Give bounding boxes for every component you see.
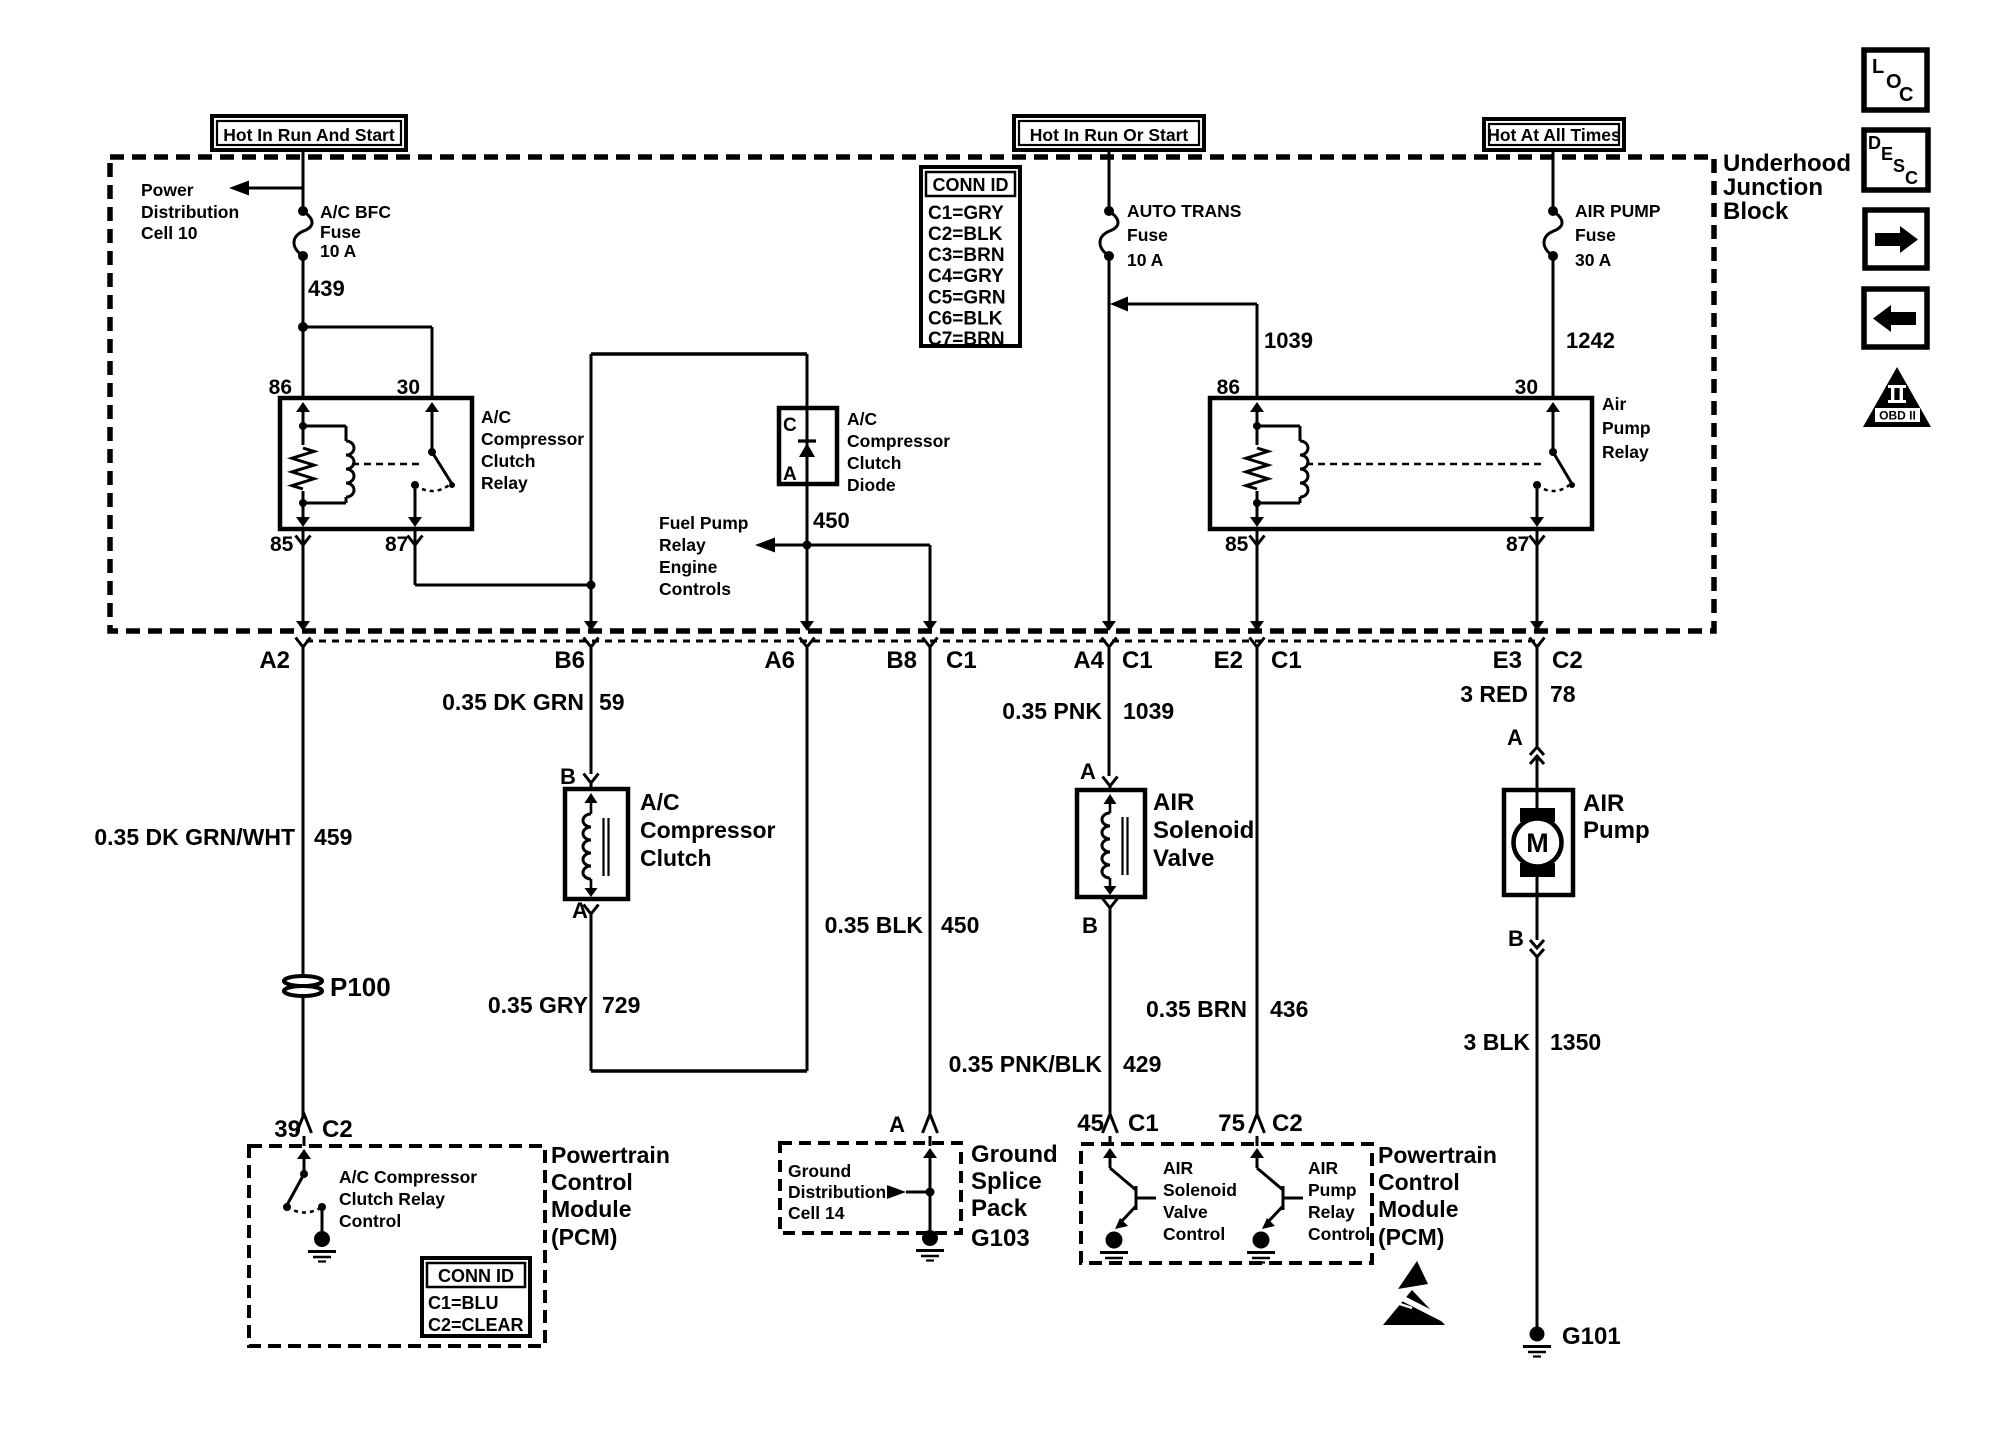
svg-text:78: 78: [1550, 681, 1576, 707]
double chevron connector (B): [1530, 895, 1544, 957]
pin label 30: [397, 376, 420, 399]
connector A4: [1102, 638, 1117, 648]
wire: solenoid pin B to PCM pin 45: [1103, 899, 1118, 1147]
connector A2: [296, 638, 311, 648]
svg-text:Air: Air: [1602, 394, 1627, 414]
svg-text:439: 439: [308, 276, 345, 301]
svg-text:Cell 14: Cell 14: [788, 1203, 845, 1223]
svg-text:C1: C1: [1271, 647, 1302, 674]
svg-text:A4: A4: [1073, 647, 1104, 674]
svg-text:1039: 1039: [1123, 698, 1174, 724]
connector label B6: [554, 647, 585, 674]
svg-text:E: E: [1881, 144, 1893, 164]
svg-text:B: B: [1508, 926, 1524, 951]
svg-text:Pump: Pump: [1308, 1180, 1357, 1200]
svg-text:Module: Module: [551, 1196, 632, 1222]
wire label 0.35 DK GRN 59: [442, 689, 624, 715]
label: AIR Solenoid Valve: [1153, 789, 1254, 872]
label: Air Pump Relay: [1602, 394, 1651, 462]
CONN ID table (underhood): [921, 167, 1020, 350]
svg-text:Powertrain: Powertrain: [1378, 1142, 1497, 1168]
icon button DESC: [1864, 130, 1928, 190]
svg-text:Block: Block: [1723, 198, 1789, 225]
pin label 45 C1: [1077, 1110, 1158, 1137]
svg-text:C: C: [783, 415, 797, 436]
svg-text:(PCM): (PCM): [1378, 1224, 1444, 1250]
svg-text:C: C: [1899, 84, 1913, 106]
wire label 439: [308, 276, 345, 301]
svg-text:85: 85: [1225, 533, 1249, 556]
wire label 1039 (branch): [1264, 328, 1313, 353]
wire: B6 to clutch pin B: [584, 647, 599, 789]
wire: Hot In Run Or Start feed down to fuse: [1108, 150, 1111, 211]
svg-text:Solenoid: Solenoid: [1153, 817, 1254, 844]
svg-text:Splice: Splice: [971, 1168, 1042, 1195]
wire: diode to junction 450: [803, 484, 812, 550]
wire: B6 vertical: [584, 354, 598, 631]
label: Ground Splice Pack G103: [971, 1141, 1058, 1252]
wire/arrow to Power Distribution: [229, 181, 303, 196]
label: Powertrain Control Module (PCM) (left): [551, 1142, 670, 1250]
svg-text:C1: C1: [1122, 647, 1153, 674]
svg-text:Compressor: Compressor: [481, 429, 584, 449]
wire label 0.35 GRY 729: [488, 992, 641, 1018]
svg-text:Junction: Junction: [1723, 174, 1823, 201]
label: A/C BFC Fuse 10 A: [320, 202, 391, 261]
wire: air relay pin 87 to connector E3: [1530, 529, 1545, 631]
svg-text:Powertrain: Powertrain: [551, 1142, 670, 1168]
svg-text:Controls: Controls: [659, 579, 731, 599]
wire label 0.35 PNK 1039: [1002, 698, 1174, 724]
icon button: left arrow: [1864, 289, 1927, 347]
ground G101: [1523, 1327, 1551, 1357]
svg-text:L: L: [1872, 56, 1884, 78]
svg-text:CONN ID: CONN ID: [933, 175, 1009, 195]
ground G103 symbol: [916, 1192, 944, 1261]
svg-text:87: 87: [1506, 533, 1529, 556]
pin label 87 (air pump relay): [1506, 533, 1529, 556]
svg-text:A: A: [889, 1112, 905, 1137]
label: AUTO TRANS Fuse 10 A: [1127, 201, 1241, 270]
svg-text:C2: C2: [322, 1116, 353, 1143]
CONN ID table (PCM): [422, 1258, 530, 1336]
wire: A4 to solenoid pin A: [1103, 647, 1118, 790]
diode symbol: [798, 408, 816, 484]
svg-text:Module: Module: [1378, 1196, 1459, 1222]
svg-text:B: B: [560, 764, 576, 789]
svg-text:G101: G101: [1562, 1323, 1621, 1350]
svg-text:OBD II: OBD II: [1879, 409, 1916, 423]
clutch coil symbol: [583, 793, 609, 897]
PCM dashed box (right): [1081, 1144, 1372, 1263]
svg-text:C1: C1: [946, 647, 977, 674]
label: A/C Compressor Clutch: [640, 789, 776, 871]
connector A6: [800, 638, 815, 648]
pin label A (clutch): [572, 898, 588, 923]
svg-text:Ground: Ground: [971, 1141, 1058, 1168]
air pump relay dashed link: [1306, 463, 1545, 466]
wire label 0.35 PNK/BLK 429: [949, 1051, 1162, 1077]
feed label box: Hot In Run Or Start: [1014, 116, 1204, 150]
label: AIR Pump: [1583, 790, 1650, 844]
svg-text:C7=BRN: C7=BRN: [928, 329, 1005, 350]
svg-text:P100: P100: [330, 972, 391, 1002]
svg-text:Relay: Relay: [1602, 442, 1649, 462]
svg-text:C2: C2: [1272, 1110, 1303, 1137]
label: Power Distribution Cell 10: [141, 180, 239, 243]
pin label 75 C2: [1218, 1110, 1302, 1137]
svg-text:Fuse: Fuse: [320, 222, 361, 242]
icon button LOC: [1864, 50, 1927, 110]
air pump relay switch: [1530, 402, 1575, 527]
relay box: Air Pump Relay: [1210, 398, 1592, 529]
svg-text:0.35 GRY: 0.35 GRY: [488, 992, 588, 1018]
svg-text:Clutch: Clutch: [847, 453, 901, 473]
component box: AIR Solenoid Valve: [1077, 790, 1145, 897]
air pump relay coil: [1246, 402, 1308, 527]
icon: OBD II triangle: [1863, 367, 1931, 427]
connector label A4 C1: [1073, 647, 1152, 674]
svg-text:Fuel Pump: Fuel Pump: [659, 513, 748, 533]
label: AIR PUMP Fuse 30 A: [1575, 201, 1661, 270]
svg-text:A/C: A/C: [847, 409, 878, 429]
wire label 0.35 DK GRN/WHT 459: [94, 824, 352, 850]
svg-text:Underhood: Underhood: [1723, 150, 1851, 177]
svg-text:0.35 PNK/BLK: 0.35 PNK/BLK: [949, 1051, 1103, 1077]
ESD sensitive device symbol: [1383, 1261, 1449, 1325]
component box: A/C Compressor Clutch: [565, 789, 628, 899]
wire/arrow to Fuel Pump Relay: [755, 538, 807, 553]
relay switch contact: [408, 402, 455, 527]
svg-text:39: 39: [274, 1116, 301, 1143]
svg-text:A/C Compressor: A/C Compressor: [339, 1167, 477, 1187]
connector label B8 C1: [886, 647, 976, 674]
svg-text:10 A: 10 A: [1127, 250, 1164, 270]
svg-text:Compressor: Compressor: [640, 817, 776, 843]
fuse: A/C BFC Fuse 10 A: [294, 206, 312, 261]
PCM driver transistor: AIR Solenoid Valve Control: [1100, 1148, 1156, 1263]
svg-text:Control: Control: [1163, 1224, 1225, 1244]
svg-text:0.35 BRN: 0.35 BRN: [1146, 996, 1247, 1022]
pin label 30 (air pump relay): [1515, 376, 1538, 399]
pin label B (solenoid): [1082, 913, 1098, 938]
wire label 3 RED 78: [1460, 681, 1576, 707]
ground splice junction and arrow: [887, 1148, 937, 1199]
svg-text:429: 429: [1123, 1051, 1161, 1077]
svg-text:Solenoid: Solenoid: [1163, 1180, 1237, 1200]
svg-text:B6: B6: [554, 647, 585, 674]
svg-text:459: 459: [314, 824, 352, 850]
wire: air pump to G101: [1536, 957, 1539, 1327]
svg-text:450: 450: [813, 508, 850, 533]
wire: A2 to P100: [302, 647, 305, 977]
svg-text:Cell 10: Cell 10: [141, 223, 198, 243]
pin label 85: [270, 533, 294, 556]
wire: E3 to air pump pin A: [1536, 647, 1539, 746]
pin label 39 C2: [274, 1116, 352, 1143]
svg-text:Pack: Pack: [971, 1195, 1028, 1222]
svg-text:436: 436: [1270, 996, 1308, 1022]
pin label 86: [269, 376, 292, 399]
svg-text:A6: A6: [764, 647, 795, 674]
svg-text:Engine: Engine: [659, 557, 718, 577]
label: Underhood Junction Block: [1723, 150, 1851, 225]
relay box: A/C Compressor Clutch Relay: [280, 398, 472, 529]
wire: relay pin 85 to connector A2: [296, 529, 311, 631]
label: Ground Distribution Cell 14: [788, 1161, 886, 1223]
svg-text:M: M: [1526, 828, 1549, 858]
svg-text:A: A: [783, 464, 797, 485]
svg-text:S: S: [1893, 156, 1905, 176]
svg-text:0.35 DK GRN/WHT: 0.35 DK GRN/WHT: [94, 824, 295, 850]
branch junction arrow to relay 86: [1110, 297, 1257, 399]
svg-text:0.35 DK GRN: 0.35 DK GRN: [442, 689, 584, 715]
wire label 450: [813, 508, 850, 533]
svg-text:C2: C2: [1552, 647, 1583, 674]
svg-text:G103: G103: [971, 1225, 1030, 1252]
svg-text:Clutch: Clutch: [481, 451, 535, 471]
pin label A (G103): [889, 1112, 905, 1137]
feed label box: Hot At All Times: [1484, 119, 1624, 150]
svg-text:Pump: Pump: [1583, 817, 1650, 844]
svg-text:Clutch Relay: Clutch Relay: [339, 1189, 445, 1209]
label: Powertrain Control Module (PCM) (right): [1378, 1142, 1497, 1250]
in-line connector P100: [284, 976, 322, 996]
label G101: [1562, 1323, 1621, 1350]
svg-text:Control: Control: [1308, 1224, 1370, 1244]
svg-text:D: D: [1868, 133, 1881, 153]
svg-text:Diode: Diode: [847, 475, 896, 495]
relay actuation dashed link: [352, 463, 424, 466]
svg-text:C1: C1: [1128, 1110, 1159, 1137]
pin label 86 (air pump relay): [1217, 376, 1240, 399]
wire label 0.35 BRN 436: [1146, 996, 1308, 1022]
svg-text:C: C: [1905, 168, 1918, 188]
wire label 1242: [1566, 328, 1615, 353]
svg-text:729: 729: [602, 992, 640, 1018]
component box: AIR Pump: [1504, 790, 1573, 895]
connector label E3 C2: [1493, 647, 1583, 674]
svg-text:A: A: [1080, 759, 1096, 784]
svg-text:Compressor: Compressor: [847, 431, 950, 451]
connector B6: [584, 638, 599, 648]
svg-text:A/C BFC: A/C BFC: [320, 202, 391, 222]
svg-text:Fuse: Fuse: [1575, 225, 1616, 245]
svg-text:10 A: 10 A: [320, 241, 357, 261]
Underhood Junction Block dashed boundary: [110, 157, 1714, 631]
pin label B (air pump): [1508, 926, 1524, 951]
connector E3: [1530, 638, 1545, 648]
connector B8: [923, 638, 938, 648]
wire: B8 to ground splice pack: [923, 647, 938, 1146]
svg-text:Control: Control: [1378, 1169, 1460, 1195]
wire: clutch pin A down and loop bottom: [584, 648, 808, 1071]
svg-text:Distribution: Distribution: [788, 1182, 886, 1202]
svg-text:C4=GRY: C4=GRY: [928, 266, 1004, 287]
svg-text:A/C: A/C: [481, 407, 512, 427]
svg-text:A/C: A/C: [640, 789, 680, 815]
svg-text:1350: 1350: [1550, 1029, 1601, 1055]
svg-text:Ground: Ground: [788, 1161, 851, 1181]
svg-text:59: 59: [599, 689, 625, 715]
svg-text:Control: Control: [339, 1211, 401, 1231]
svg-text:85: 85: [270, 533, 294, 556]
svg-text:Fuse: Fuse: [1127, 225, 1168, 245]
svg-text:C2=BLK: C2=BLK: [928, 224, 1003, 245]
svg-text:AIR PUMP: AIR PUMP: [1575, 201, 1661, 221]
svg-text:30: 30: [397, 376, 420, 399]
label: A/C Compressor Clutch Relay: [481, 407, 584, 493]
harness connector dashed line: [306, 640, 1537, 643]
svg-text:3 RED: 3 RED: [1460, 681, 1528, 707]
svg-text:Power: Power: [141, 180, 194, 200]
wire label 3 BLK 1350: [1464, 1029, 1602, 1055]
svg-text:AUTO TRANS: AUTO TRANS: [1127, 201, 1241, 221]
svg-text:AIR: AIR: [1308, 1158, 1339, 1178]
fuse: AIR PUMP Fuse 30 A: [1544, 206, 1562, 261]
svg-text:C1=BLU: C1=BLU: [428, 1293, 499, 1313]
svg-text:Valve: Valve: [1153, 845, 1214, 872]
svg-text:B: B: [1082, 913, 1098, 938]
svg-text:Relay: Relay: [481, 473, 528, 493]
wire: fuse to relay pin 86 with branch junction: [298, 256, 432, 398]
svg-text:CONN ID: CONN ID: [438, 1266, 514, 1286]
wire: Hot In Run And Start feed down to fuse: [302, 150, 305, 211]
svg-text:C6=BLK: C6=BLK: [928, 309, 1003, 330]
svg-text:86: 86: [269, 376, 292, 399]
wire: diode feed vertical: [806, 354, 809, 408]
svg-text:E3: E3: [1493, 647, 1522, 674]
air pump motor symbol: [1514, 790, 1562, 895]
svg-text:A2: A2: [259, 647, 290, 674]
svg-text:30: 30: [1515, 376, 1538, 399]
wire: air relay pin 85 to connector E2: [1250, 529, 1265, 631]
svg-text:1039: 1039: [1264, 328, 1313, 353]
icon button: right arrow: [1865, 210, 1927, 268]
wire: P100 to PCM pin 39: [297, 996, 312, 1146]
wire: relay pin 87 to B6 node: [408, 529, 596, 590]
svg-text:Relay: Relay: [1308, 1202, 1355, 1222]
wire: fuse down to connector A4: [1102, 256, 1116, 631]
connector label A2: [259, 647, 290, 674]
wire: fuse to relay pin 30: [1552, 256, 1555, 398]
pin label A (air pump): [1507, 725, 1523, 750]
wire: A6 vertical to clutch loop bottom: [800, 545, 814, 631]
svg-text:Valve: Valve: [1163, 1202, 1208, 1222]
wire label 0.35 BLK 450: [825, 912, 980, 938]
label: Fuel Pump Relay Engine Controls: [659, 513, 748, 599]
svg-text:3 BLK: 3 BLK: [1464, 1029, 1531, 1055]
svg-text:(PCM): (PCM): [551, 1224, 617, 1250]
pin label B (clutch): [560, 764, 576, 789]
svg-text:C3=BRN: C3=BRN: [928, 245, 1005, 266]
wire: E2 to PCM pin 75: [1250, 647, 1265, 1146]
PCM driver transistor: AIR Pump Relay Control: [1247, 1148, 1303, 1263]
svg-text:C5=GRN: C5=GRN: [928, 288, 1006, 309]
label: A/C Compressor Clutch Diode: [847, 409, 950, 495]
svg-text:Distribution: Distribution: [141, 202, 239, 222]
feed label box: Hot In Run And Start: [212, 116, 406, 150]
PCM dashed box (left): [249, 1146, 545, 1346]
fuse: AUTO TRANS Fuse 10 A: [1100, 206, 1118, 261]
Ground Splice Pack dashed box: [780, 1143, 961, 1233]
svg-text:30 A: 30 A: [1575, 250, 1612, 270]
relay coil (resistor + inductor in parallel): [292, 402, 354, 527]
svg-text:B8: B8: [886, 647, 917, 674]
svg-text:45: 45: [1077, 1110, 1104, 1137]
svg-text:450: 450: [941, 912, 979, 938]
connector label A6: [764, 647, 795, 674]
label: AIR Pump Relay Control: [1308, 1158, 1370, 1244]
svg-text:86: 86: [1217, 376, 1240, 399]
diode box: A/C Compressor Clutch Diode: [779, 408, 837, 485]
svg-text:Relay: Relay: [659, 535, 706, 555]
svg-text:87: 87: [385, 533, 408, 556]
svg-text:0.35 BLK: 0.35 BLK: [825, 912, 924, 938]
svg-text:AIR: AIR: [1153, 789, 1194, 816]
pin label A (solenoid): [1080, 759, 1096, 784]
svg-text:Hot In Run Or Start: Hot In Run Or Start: [1030, 125, 1189, 145]
svg-text:E2: E2: [1214, 647, 1243, 674]
svg-text:1242: 1242: [1566, 328, 1615, 353]
pin label 85 (air pump relay): [1225, 533, 1249, 556]
svg-text:AIR: AIR: [1163, 1158, 1194, 1178]
svg-text:C2=CLEAR: C2=CLEAR: [428, 1315, 524, 1335]
svg-text:AIR: AIR: [1583, 790, 1624, 817]
label: A/C Compressor Clutch Relay Control: [339, 1167, 477, 1231]
svg-text:Hot In Run And Start: Hot In Run And Start: [223, 125, 395, 145]
wire: Hot At All Times feed down to fuse: [1552, 150, 1555, 211]
pin label 87: [385, 533, 408, 556]
label P100: [330, 972, 391, 1002]
connector E2: [1250, 638, 1265, 648]
svg-text:C1=GRY: C1=GRY: [928, 203, 1004, 224]
connector label E2 C1: [1214, 647, 1302, 674]
double chevron connector (A): [1530, 747, 1544, 790]
svg-text:75: 75: [1218, 1110, 1245, 1137]
svg-text:Clutch: Clutch: [640, 845, 712, 871]
svg-text:A: A: [1507, 725, 1523, 750]
svg-text:Control: Control: [551, 1169, 633, 1195]
svg-text:0.35 PNK: 0.35 PNK: [1002, 698, 1102, 724]
wire: top edge of clutch loop: [591, 352, 807, 356]
PCM internal switch: A/C Compressor Clutch Relay Control: [283, 1149, 336, 1262]
svg-text:Hot At All Times: Hot At All Times: [1487, 125, 1621, 145]
solenoid coil symbol: [1102, 794, 1128, 895]
svg-text:Pump: Pump: [1602, 418, 1651, 438]
wire: junction to connector B8: [807, 545, 937, 631]
label: AIR Solenoid Valve Control: [1163, 1158, 1237, 1244]
svg-text:A: A: [572, 898, 588, 923]
